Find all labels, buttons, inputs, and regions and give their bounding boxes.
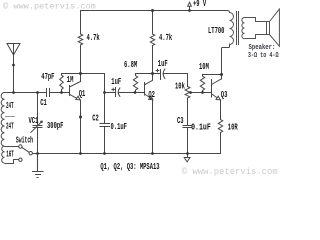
junction Q1 emitter at ground rail	[79, 152, 82, 155]
wire Q1 base line	[5, 92, 70, 94]
junction on antenna wire	[12, 64, 15, 67]
svg-text:© www.petervis.com: © www.petervis.com	[182, 167, 278, 177]
wire R2 bottom to Q2 collector node	[152, 46, 154, 74]
transistor Q3 emitter arrow	[216, 96, 220, 100]
wire down to 10k	[187, 74, 189, 87]
wire C2 column	[104, 93, 106, 154]
wire secondary top to speaker	[245, 18, 267, 22]
variable capacitor VC1 300pF	[31, 93, 43, 154]
switch terminal bottom	[19, 158, 22, 161]
junction +9V arrow on rail	[188, 9, 191, 12]
svg-text:4.7k: 4.7k	[87, 34, 101, 44]
svg-text:24T: 24T	[6, 122, 14, 132]
switch terminal top	[19, 145, 22, 148]
svg-text:1M: 1M	[67, 76, 74, 86]
resistor R2 4.7k	[150, 34, 154, 46]
junction 10M top / Q3 collector	[220, 73, 223, 76]
junction 6.8M bottom	[134, 91, 137, 94]
capacitor C1 47pF	[47, 89, 50, 97]
svg-text:+9 V: +9 V	[193, 0, 207, 10]
transistor Q1 emitter arrow	[76, 96, 80, 100]
svg-text:24T: 24T	[6, 102, 14, 112]
svg-text:0.1uF: 0.1uF	[191, 123, 211, 133]
svg-text:300pF: 300pF	[47, 122, 64, 132]
coil tap wire to switch	[5, 146, 19, 148]
junction C2 / 1uF / Q2 base node	[103, 91, 106, 94]
transistor Q3 MPSA13	[212, 79, 222, 98]
wire 10k bottom to C3	[187, 98, 189, 126]
svg-text:C2: C2	[92, 114, 99, 124]
wire Q3 emitter to 10R	[220, 100, 222, 120]
switch SW1	[19, 145, 38, 162]
svg-text:Q1: Q1	[79, 90, 86, 100]
svg-text:LT700: LT700	[208, 27, 225, 37]
wire Q1 emitter to ground rail	[80, 100, 82, 154]
speaker LS1	[267, 9, 280, 46]
junction C3 at ground rail	[186, 152, 189, 155]
resistor R4 6.8M	[133, 74, 137, 93]
wire C3 to ground rail	[187, 128, 189, 154]
svg-text:VC1: VC1	[29, 117, 39, 127]
junction Q1 collector node	[79, 72, 82, 75]
wire Q2 emitter to ground rail	[152, 100, 154, 154]
resistor R7 10R	[218, 120, 222, 133]
transformer core	[237, 11, 239, 45]
wire secondary bottom to speaker	[245, 35, 267, 39]
wire 10R bottom to ground rail	[220, 133, 222, 154]
junction R2 at +9V rail	[151, 9, 154, 12]
junction Q2 emitter at ground rail	[151, 152, 154, 155]
wire 10M top to Q3 collector	[203, 74, 222, 76]
svg-text:47pF: 47pF	[41, 73, 55, 83]
junction switch to ground rail	[36, 152, 39, 155]
junction 10M bottom / Q3 base	[201, 91, 204, 94]
svg-text:C1: C1	[40, 99, 47, 109]
capacitor 1uF coupling Q1-Q2	[105, 88, 145, 97]
svg-text:4.7k: 4.7k	[159, 34, 173, 44]
wire switch pole to rail	[32, 153, 37, 155]
VC1 arrow	[31, 121, 43, 133]
transistor Q2 MPSA13	[145, 74, 153, 98]
svg-text:Q3: Q3	[221, 91, 228, 101]
wire Q3 collector to transformer	[222, 44, 230, 79]
svg-text:1uF: 1uF	[111, 78, 121, 88]
wire node A corner down to C2/cap node	[104, 74, 106, 93]
transistor Q2 emitter arrow	[149, 96, 153, 100]
wire ground rail	[38, 153, 221, 155]
ground symbol (triangle) at main rail	[184, 154, 190, 162]
svg-text:16T: 16T	[6, 150, 14, 160]
power arrow +9V	[188, 2, 192, 10]
wire R2 top drop	[152, 11, 154, 35]
resistor R6 10M	[200, 75, 204, 93]
junction VC1 top	[36, 91, 39, 94]
wire node A horizontal (Q1 collector node)	[62, 73, 105, 75]
svg-text:C3: C3	[177, 117, 184, 127]
svg-text:10k: 10k	[175, 82, 185, 92]
wire 6.8M top to Q2 collector node	[136, 73, 153, 75]
resistor R3 1M (feedback)	[60, 74, 64, 93]
svg-text:Q2: Q2	[148, 91, 155, 101]
svg-text:© www.petervis.com: © www.petervis.com	[3, 1, 96, 11]
capacitor C2 0.1uF	[100, 124, 110, 127]
wire R1 top drop	[80, 11, 82, 35]
junction on Q1 emitter wire	[79, 116, 82, 119]
antenna	[7, 44, 20, 93]
resistor R1 4.7k	[78, 34, 82, 45]
transistor Q1 MPSA13	[70, 74, 81, 99]
svg-text:Q1, Q2, Q3: MPSA13: Q1, Q2, Q3: MPSA13	[100, 163, 160, 173]
coil bottom wire	[5, 160, 19, 164]
wire Q3 base	[191, 92, 212, 94]
wire +9V top rail	[81, 10, 228, 12]
ground symbol (3-bar) at VC1	[32, 154, 44, 178]
svg-text:3-Ω to 4-Ω: 3-Ω to 4-Ω	[248, 51, 279, 59]
resistor R5 10k (volume)	[185, 87, 190, 99]
junction antenna to tuned circuit	[12, 91, 15, 94]
junction Q2 collector node	[151, 72, 154, 75]
capacitor C3 0.1uF	[183, 126, 192, 128]
capacitor 1uF coupling Q2-Q3	[153, 69, 188, 80]
svg-text:1uF: 1uF	[158, 60, 168, 70]
component value labels	[6, 0, 238, 172]
svg-text:0.1uF: 0.1uF	[111, 123, 128, 133]
switch pole	[29, 152, 32, 155]
wire R1 bottom to node A	[80, 45, 82, 74]
svg-text:10R: 10R	[228, 123, 238, 133]
transformer T1 LT700 primary	[228, 11, 267, 46]
svg-text:6.8M: 6.8M	[124, 61, 138, 71]
junction 10k wiper	[189, 91, 192, 94]
transformer secondary	[242, 18, 245, 39]
junction 1M bottom / Q1 base	[60, 91, 63, 94]
svg-text:Switch: Switch	[16, 136, 33, 146]
junction C2 at ground rail	[103, 152, 106, 155]
svg-text:10M: 10M	[199, 63, 209, 73]
tuning coil L1 with taps	[1, 93, 19, 164]
switch lever	[22, 147, 29, 152]
coil centre tap stub	[5, 116, 15, 118]
